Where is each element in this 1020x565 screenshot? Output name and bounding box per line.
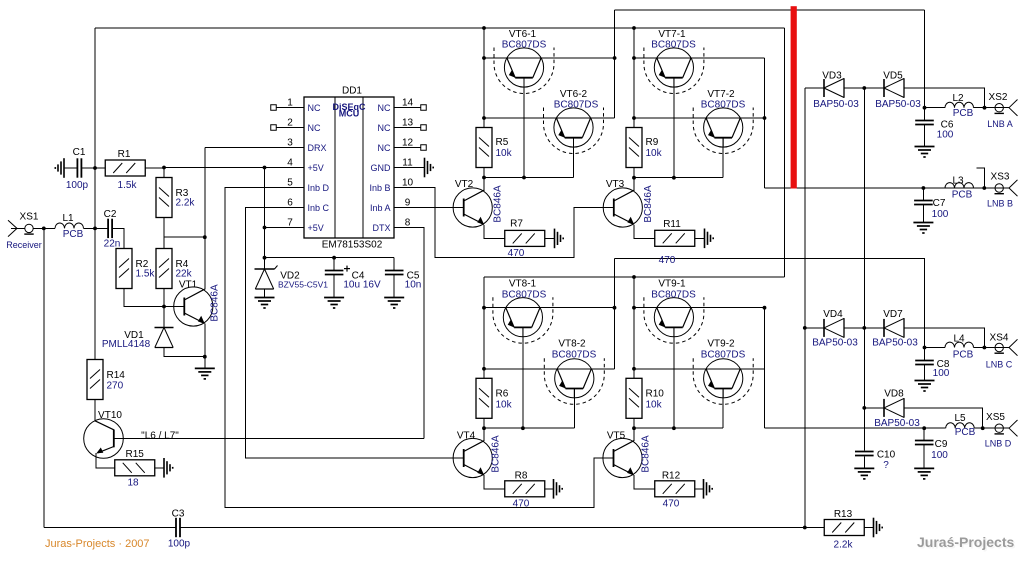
svg-text:R5: R5 (496, 137, 509, 148)
svg-text:R11: R11 (663, 219, 681, 230)
pin names DD1 (308, 103, 392, 233)
transistor VT1 (174, 287, 213, 326)
resistor R2 (116, 249, 132, 289)
wire DD1 pin12 stub (394, 147, 421, 149)
capacitor C2 (108, 219, 112, 238)
wire VT10 collector row y438.5 (123, 438, 424, 440)
wire VT8 output vertical x614.5 (614, 258, 616, 368)
svg-text:11: 11 (402, 158, 413, 169)
svg-text:R13: R13 (834, 509, 853, 520)
svg-text:NC: NC (378, 123, 391, 133)
resistor R11 (655, 230, 695, 246)
node rail B / VT7 rail (632, 26, 636, 30)
svg-text:L1: L1 (62, 213, 74, 224)
svg-text:VD7: VD7 (883, 309, 903, 320)
wire XS1 to L1 (33, 227, 55, 229)
diode VD5 (884, 78, 904, 98)
svg-text:10k: 10k (646, 148, 663, 159)
node L1/C2/bus (93, 227, 97, 231)
wire bus vertical x95 top rail corner to R14 (94, 28, 96, 360)
node XS5 (981, 426, 985, 430)
svg-text:270: 270 (107, 381, 124, 392)
svg-text:Inb B: Inb B (369, 183, 390, 193)
IC DD1 body (304, 97, 394, 238)
wire C1 to bus (81, 167, 95, 169)
dashed package arc VT8-1 (493, 297, 553, 343)
DD1 pin13 NC square (421, 125, 427, 131)
wire VT6 base rail y177.5 (483, 168, 485, 178)
wire R15 to ground (155, 467, 164, 469)
node VT6-2 emitter rail (482, 116, 486, 120)
node R5/VT2 collector/bases (482, 176, 486, 180)
wire VT7-1 row y58 to x764.5 (634, 57, 765, 59)
chassis ground right of R15 (164, 458, 173, 478)
wire XS2 feed drop x924.5 (924, 10, 926, 108)
dashed package arc VT7-1 (644, 48, 704, 94)
svg-text:R9: R9 (646, 137, 659, 148)
wire VD4 row y327.9 (805, 327, 824, 329)
svg-text:R1: R1 (118, 149, 131, 160)
ground below C9 (914, 468, 934, 479)
wire C1 left ground stub (64, 167, 78, 169)
wire pin8 DTX route down to VT10 collector row (394, 228, 424, 439)
zener diode VD2 (255, 266, 278, 290)
wire VT9-1 row y307.7 (634, 307, 765, 309)
node VT8-1 base rail (521, 426, 525, 430)
node VT9-1 emitter rail (632, 306, 636, 310)
wire VT2 emitter to R7 (484, 225, 505, 239)
svg-text:1: 1 (287, 98, 293, 109)
wire VT3 emitter to R11 (634, 225, 655, 239)
XS5 fork (1009, 420, 1018, 436)
wire C4 bottom (333, 275, 335, 298)
svg-text:18: 18 (127, 478, 139, 489)
wire bottom rail right of C3 (181, 527, 825, 529)
diode VD8 (884, 398, 904, 418)
transistor VT3 (603, 188, 642, 227)
svg-text:L2: L2 (952, 93, 964, 104)
transistor VT8-1 (503, 298, 542, 337)
transistor VT5 (603, 438, 642, 477)
svg-text:3: 3 (287, 138, 293, 149)
svg-text:100: 100 (932, 209, 949, 220)
diode VD7 (884, 318, 904, 338)
wire XS1 node drop x43.8 (43, 228, 45, 527)
svg-text:22n: 22n (104, 239, 121, 250)
svg-text:100: 100 (931, 450, 948, 461)
svg-text:XS2: XS2 (989, 92, 1008, 103)
red annotation line (791, 6, 797, 188)
wire bottom rail left of C3 (44, 527, 176, 529)
svg-text:VT6-2: VT6-2 (560, 89, 588, 100)
svg-text:BC807DS: BC807DS (554, 100, 599, 111)
transistor VT9-1 (654, 298, 693, 337)
svg-text:BZV55-C5V1: BZV55-C5V1 (278, 280, 328, 290)
wire VT6-1 collector-emitter row y58 (484, 57, 615, 59)
chassis ground right of R7 (555, 229, 564, 249)
wire VT8-1 row y307.7 (484, 307, 615, 309)
wire XS1 fork stub (11, 227, 25, 229)
wire VT7 output vertical x764.5 (764, 58, 766, 188)
node L2/C6 (923, 106, 927, 110)
svg-text:BC846A: BC846A (643, 185, 654, 223)
DD1 pin1 NC square (271, 105, 277, 111)
svg-text:PCB: PCB (952, 190, 973, 201)
wire C10 bottom (863, 457, 865, 469)
node R10/VT5 collector (632, 426, 636, 430)
wire VT6-1 base down (523, 78, 525, 178)
wire VT2 collector (483, 178, 485, 192)
svg-text:NC: NC (378, 143, 391, 153)
svg-text:VT7-2: VT7-2 (707, 89, 735, 100)
svg-text:C10: C10 (877, 450, 896, 461)
wire VT4 emitter to R8 (484, 475, 505, 489)
svg-text:C3: C3 (172, 509, 185, 520)
chassis ground right of R12 (704, 479, 713, 499)
svg-text:470: 470 (513, 499, 530, 510)
wire VT9 base rail y428.2 (633, 418, 635, 428)
XS3 fork (1009, 180, 1018, 196)
svg-text:GND: GND (371, 163, 392, 173)
svg-text:10: 10 (402, 178, 414, 189)
svg-text:DD1: DD1 (342, 86, 362, 97)
node VD4/VD7 bus (862, 326, 866, 330)
wire DD1 pin1 stub (277, 107, 305, 109)
wire L5 right to XS5 (974, 427, 1009, 429)
svg-text:VD3: VD3 (822, 71, 842, 82)
svg-text:VT9-1: VT9-1 (658, 279, 686, 290)
node L5/C9 (922, 426, 926, 430)
svg-text:"L6 / L7": "L6 / L7" (141, 431, 179, 442)
svg-text:R7: R7 (510, 219, 523, 230)
resistor R15 (115, 460, 155, 476)
svg-text:Juraś-Projects: Juraś-Projects (917, 534, 1014, 550)
node rail B / VT6 rail (482, 26, 486, 30)
DD1 pin2 NC square (271, 125, 277, 131)
resistor R7 (505, 230, 545, 246)
svg-text:?: ? (883, 460, 889, 471)
ground below C4 (324, 298, 344, 309)
svg-text:LNB A: LNB A (987, 119, 1013, 129)
svg-text:PCB: PCB (953, 108, 974, 119)
node VT6-1 emitter rail (482, 56, 486, 60)
node XS2 (983, 106, 987, 110)
svg-text:1.5k: 1.5k (118, 180, 138, 191)
wire VT7 left rail x634 (633, 28, 635, 128)
wire R3 bottom to DRX node (163, 218, 165, 249)
wire VT7-2 base down (722, 138, 724, 178)
svg-text:+5V: +5V (308, 163, 324, 173)
svg-text:2.2k: 2.2k (834, 540, 854, 551)
inductor L1 (55, 223, 84, 228)
node XS1 drop (42, 227, 46, 231)
wire DD1 pin14 stub (394, 107, 421, 109)
node VT6-1 base rail (522, 176, 526, 180)
svg-text:R8: R8 (515, 471, 528, 482)
wire VT9 output vertical x764.5 (764, 308, 766, 429)
svg-text:100: 100 (933, 368, 950, 379)
svg-text:BAP50-03: BAP50-03 (872, 338, 918, 349)
svg-text:22k: 22k (176, 269, 193, 280)
wire diode column vertical x804.8 (804, 88, 806, 528)
capacitor C10 (855, 452, 874, 456)
transistor VT2 (453, 188, 492, 227)
svg-text:470: 470 (663, 499, 680, 510)
wire pin10 InbB route to VT3 base (394, 188, 614, 258)
wire R7 to ground (545, 237, 555, 239)
svg-text:BC846A: BC846A (491, 435, 502, 473)
svg-text:10k: 10k (496, 148, 513, 159)
svg-text:PCB: PCB (955, 427, 976, 438)
svg-text:Inb A: Inb A (370, 203, 391, 213)
svg-text:10k: 10k (496, 400, 513, 411)
node VT7-2 emitter rail (632, 116, 636, 120)
wire R8 to ground (545, 488, 554, 490)
node R9/VT3 collector (632, 176, 636, 180)
wire pin6 InbC route to VT4 base (246, 208, 464, 459)
node emitter rail / VT9 rail (632, 275, 636, 279)
svg-text:XS1: XS1 (20, 212, 39, 223)
capacitor C7 (914, 201, 933, 205)
svg-text:7: 7 (287, 218, 293, 229)
svg-text:NC: NC (308, 123, 321, 133)
svg-text:1.5k: 1.5k (136, 269, 156, 280)
svg-text:VD4: VD4 (823, 309, 843, 320)
diode VD1 (155, 328, 174, 348)
resistor R4 (156, 249, 172, 289)
svg-text:NC: NC (308, 103, 321, 113)
svg-text:MCU: MCU (339, 109, 360, 119)
svg-text:EM78153S02: EM78153S02 (322, 240, 383, 251)
svg-text:NC: NC (378, 103, 391, 113)
inductor L3 (945, 183, 974, 188)
node VT7-1 base rail (672, 176, 676, 180)
wire VD8 anode to XS5 corner (904, 408, 983, 428)
node VD8 bus (862, 406, 866, 410)
diode VD4 (824, 318, 844, 338)
wire R2 bottom to VT1 base row (124, 289, 184, 307)
dashed package arc VT9-2 (693, 358, 753, 404)
wire L1 to bus (84, 227, 109, 229)
svg-text:BAP50-03: BAP50-03 (875, 99, 921, 110)
inductor L4 (945, 342, 974, 347)
node R2/R4/VT1 base (162, 305, 166, 309)
wire bus to R1 (95, 167, 105, 169)
wire VD1 bottom to emitter row (164, 348, 205, 357)
svg-text:BAP50-03: BAP50-03 (813, 99, 859, 110)
ground below C8 (915, 381, 935, 392)
resistor R5 (476, 128, 492, 168)
resistor R3 (156, 178, 172, 218)
svg-text:R14: R14 (107, 370, 126, 381)
ground below C7 (913, 223, 933, 234)
wire VT1 collector (204, 237, 206, 289)
svg-text:VT3: VT3 (606, 179, 625, 190)
wire VT9-2 row y368.8 (634, 368, 765, 370)
wire VD8 row y407.9 (864, 407, 884, 409)
node XS4 (983, 346, 987, 350)
svg-text:BC807DS: BC807DS (502, 290, 547, 301)
DD1 pin12 NC square (421, 145, 427, 151)
svg-text:10u 16V: 10u 16V (343, 280, 381, 291)
svg-text:12: 12 (402, 138, 414, 149)
wire C7 drop (922, 188, 924, 201)
svg-text:2.2k: 2.2k (176, 198, 196, 209)
wire XS3 / LNB B feed row y188 (765, 187, 985, 189)
wire C5 top (393, 258, 395, 271)
wire R4 bottom to VT1 base node (163, 289, 165, 307)
svg-text:XS3: XS3 (991, 172, 1010, 183)
connector XS3 (995, 184, 1004, 194)
svg-text:470: 470 (508, 248, 525, 259)
svg-text:100p: 100p (66, 180, 89, 191)
wire top output rail y10 (615, 9, 925, 11)
chassis ground right of R11 (705, 229, 714, 249)
svg-text:R12: R12 (662, 471, 681, 482)
dashed package arc VT6-1 (494, 48, 554, 94)
transistor VT6-2 (554, 108, 593, 147)
svg-text:PMLL4148: PMLL4148 (102, 339, 151, 350)
svg-text:BC846A: BC846A (210, 284, 221, 322)
wire R3/R4 row to DRX vertical (164, 236, 205, 238)
svg-text:BC846A: BC846A (641, 435, 652, 473)
svg-text:C1: C1 (73, 147, 86, 158)
wire VT9-2 base down (722, 389, 724, 429)
wire VT6-2 collector-emitter row y118 (484, 117, 615, 119)
XS2 fork (1009, 100, 1018, 116)
wire vertical x614.6 joining VT6 outputs to top rail (614, 10, 616, 118)
ground below VD2 (255, 298, 275, 309)
svg-text:VT5: VT5 (607, 431, 626, 442)
resistor R6 (476, 378, 492, 418)
wire bus-B drop x784.3 from rail B to emitter rail (783, 28, 785, 277)
wire VT9 left rail x634 (633, 277, 635, 378)
transistor VT7-2 (704, 108, 743, 147)
capacitor C1 (77, 158, 81, 177)
node L4/C8 (923, 346, 927, 350)
dashed package arc VT7-2 (693, 108, 753, 154)
wire pin7 stub (265, 227, 305, 229)
capacitor C5 (385, 271, 404, 275)
wire R12 to ground (695, 488, 704, 490)
watermark Juras-Projects (917, 534, 1016, 552)
svg-text:L5: L5 (954, 413, 966, 424)
dashed package arc VT9-1 (644, 297, 704, 343)
XS4 fork (1009, 339, 1018, 355)
wire rail B y28 from x95 to x784 (95, 27, 784, 29)
capacitor C8 (915, 361, 934, 365)
svg-text:DTX: DTX (373, 223, 391, 233)
wire C8 drop (924, 348, 926, 361)
node VT8-1 emitter rail (482, 306, 486, 310)
transistor VT8-2 (555, 359, 594, 398)
wire VD2 bottom to ground (264, 289, 266, 298)
transistor VT10 (rotated) (84, 419, 124, 459)
svg-text:Inb C: Inb C (308, 203, 330, 213)
svg-text:VD8: VD8 (884, 389, 904, 400)
svg-text:100: 100 (937, 130, 954, 141)
svg-text:VT4: VT4 (457, 431, 476, 442)
wire C4 top (333, 258, 335, 271)
svg-text:BC807DS: BC807DS (502, 39, 547, 50)
wire C6 drop (924, 108, 926, 121)
diode VD3 (824, 78, 844, 98)
wire VT10 emitter to R15 (96, 453, 115, 468)
svg-text:6: 6 (287, 198, 293, 209)
svg-text:BC807DS: BC807DS (651, 290, 696, 301)
wire VT7 base rail y177.7 (633, 168, 635, 178)
resistor R13 (824, 520, 864, 536)
node XS3 (982, 186, 986, 190)
dashed package arc VT6-2 (544, 108, 604, 154)
capacitor C6 (915, 121, 934, 125)
C4 plus sign (344, 266, 350, 272)
svg-text:8: 8 (405, 218, 411, 229)
svg-text:VT10: VT10 (98, 410, 122, 421)
node C1/R1/bus (93, 166, 97, 170)
node VT9-2 emitter rail (632, 367, 636, 371)
node +5V pin4 column (263, 166, 267, 170)
wire VD1 top (163, 307, 165, 328)
svg-text:XS5: XS5 (986, 412, 1005, 423)
wire pin3 DRX route (205, 147, 304, 149)
svg-text:BC807DS: BC807DS (701, 349, 746, 360)
svg-text:VT9-2: VT9-2 (707, 339, 735, 350)
svg-text:Juras-Projects · 2007: Juras-Projects · 2007 (45, 538, 150, 550)
capacitor C9 (915, 441, 934, 445)
resistor R12 (655, 481, 695, 497)
svg-text:BC807DS: BC807DS (552, 349, 597, 360)
wire pin5 InbD route to VT5 base (225, 188, 614, 508)
wire VT5 collector (633, 428, 635, 441)
node VT9-1 collector column (763, 306, 767, 310)
wire L3 row segment (923, 187, 945, 189)
chassis ground right of R8 (554, 479, 563, 499)
node VT6-1 collector column (613, 56, 617, 60)
wire C9 drop (923, 428, 925, 440)
node VT8-2 emitter rail (482, 367, 486, 371)
wire VT8-1 base down (522, 328, 524, 429)
node R6/VT4 collector/bases (482, 426, 486, 430)
svg-text:9: 9 (405, 198, 411, 209)
svg-text:R10: R10 (646, 389, 665, 400)
svg-text:L3: L3 (952, 176, 964, 187)
svg-text:BAP50-03: BAP50-03 (812, 338, 858, 349)
node VT8-1 collector column (613, 306, 617, 310)
node C4 top (332, 256, 336, 260)
svg-text:C2: C2 (104, 209, 117, 220)
svg-text:LNB C: LNB C (986, 360, 1013, 370)
node VD1/VT1 emitter/ground (203, 355, 207, 359)
svg-text:VT8-2: VT8-2 (558, 339, 586, 350)
node pin7 +5V (263, 226, 267, 230)
XS1 fork (8, 220, 17, 236)
transistor VT4 (453, 438, 492, 477)
DD1 pin14 NC square (421, 105, 427, 111)
wire VD5 anode to XS2 corner (904, 88, 985, 108)
svg-text:PCB: PCB (63, 229, 84, 240)
wire VD3 row y88 (805, 87, 824, 89)
wire XS2 row y107.7 (925, 107, 946, 109)
ground below VT1 (195, 368, 215, 379)
svg-text:VT2: VT2 (455, 179, 474, 190)
svg-text:BC807DS: BC807DS (651, 39, 696, 50)
wire XS3 stub bracket (977, 168, 985, 188)
ground below C10 (854, 468, 874, 479)
wire DD1 pin11 GND stub (394, 167, 425, 169)
wire VT9-1 base down (673, 328, 675, 429)
chassis ground right of R13 (874, 518, 883, 538)
